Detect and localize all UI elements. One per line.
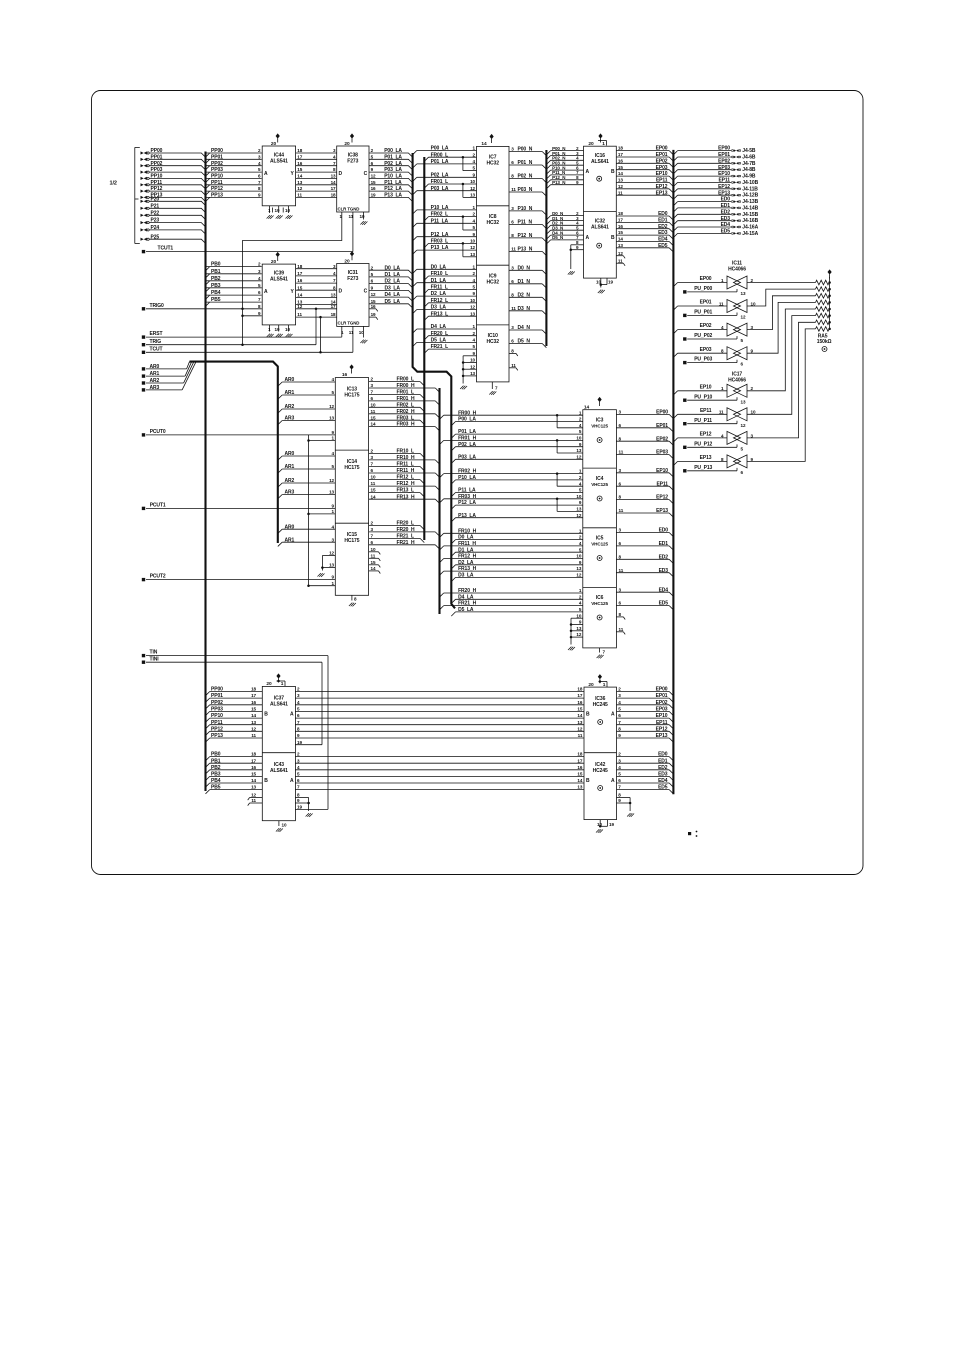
svg-text:ERST: ERST xyxy=(150,331,163,337)
svg-text:12: 12 xyxy=(329,478,334,483)
svg-text:ED0: ED0 xyxy=(659,528,669,534)
svg-text:ED2: ED2 xyxy=(658,224,668,230)
svg-text:EP10: EP10 xyxy=(656,171,668,177)
control signal PU_P03 xyxy=(683,361,686,364)
svg-text:EP11: EP11 xyxy=(656,178,668,184)
svg-text:ED3: ED3 xyxy=(658,772,668,778)
svg-text:D2_LA: D2_LA xyxy=(385,279,401,285)
svg-text:EP03: EP03 xyxy=(718,165,730,171)
IC6 ground pin 7 xyxy=(599,648,601,653)
svg-text:D: D xyxy=(339,289,343,295)
svg-text:PP02: PP02 xyxy=(151,161,163,167)
svg-text:14: 14 xyxy=(618,237,623,242)
svg-text:13: 13 xyxy=(618,178,623,183)
svg-text:PP12: PP12 xyxy=(211,186,223,192)
transceiver pair IC36 IC42 HC245 xyxy=(584,687,617,820)
svg-text:EP03: EP03 xyxy=(656,165,668,171)
svg-text:20: 20 xyxy=(271,141,277,147)
svg-text:HC245: HC245 xyxy=(593,702,608,708)
svg-text:EP03: EP03 xyxy=(656,707,668,713)
svg-text:VHC125: VHC125 xyxy=(591,542,608,547)
svg-text:12: 12 xyxy=(577,726,582,731)
svg-text:EP03: EP03 xyxy=(700,347,712,353)
svg-text:1: 1 xyxy=(603,682,606,688)
svg-text:16: 16 xyxy=(371,304,376,309)
J4 connector rows xyxy=(678,150,731,152)
svg-text:EP00: EP00 xyxy=(656,146,668,152)
svg-text:10: 10 xyxy=(576,554,581,559)
svg-text:B: B xyxy=(611,169,615,175)
svg-text:12: 12 xyxy=(470,245,475,250)
svg-text:13: 13 xyxy=(251,785,256,790)
svg-text:PP02: PP02 xyxy=(211,700,223,706)
svg-text:10: 10 xyxy=(576,494,581,499)
svg-text:11: 11 xyxy=(511,363,516,368)
wire switch output EP01 to RA5 xyxy=(747,289,816,306)
svg-text:J4-15B: J4-15B xyxy=(742,212,758,218)
svg-text:PP03: PP03 xyxy=(211,167,223,173)
svg-text:ED1: ED1 xyxy=(658,758,668,764)
wire switch output EP10 to RA5 xyxy=(747,309,816,391)
IC39 ground pins 1 19 10 xyxy=(269,325,271,332)
IC42 output stubs 8 9 grounded xyxy=(617,797,631,799)
svg-text:12: 12 xyxy=(329,551,334,556)
svg-text:12: 12 xyxy=(576,454,581,459)
bus B4 FR_L vertical bus x=424.3 xyxy=(423,157,425,540)
switch unit EP11 IC17 xyxy=(678,413,727,415)
signal PCUT1 xyxy=(142,507,145,510)
svg-text:PP12: PP12 xyxy=(211,726,223,732)
svg-text:B: B xyxy=(264,712,268,718)
svg-text:14: 14 xyxy=(251,713,256,718)
svg-text:VHC125: VHC125 xyxy=(591,601,608,606)
svg-text:ED4: ED4 xyxy=(658,237,668,243)
svg-text:18: 18 xyxy=(577,752,582,757)
svg-text:PU_P02: PU_P02 xyxy=(694,333,712,339)
svg-text:J4-7B: J4-7B xyxy=(742,161,756,167)
svg-text:ALS641: ALS641 xyxy=(591,159,609,165)
signal TRIG0 xyxy=(142,307,145,310)
svg-text:J4-14B: J4-14B xyxy=(742,205,758,211)
svg-text:13: 13 xyxy=(618,243,623,248)
svg-text:14: 14 xyxy=(251,778,256,783)
svg-text:PB0: PB0 xyxy=(211,262,221,268)
svg-text:D: D xyxy=(339,171,343,177)
svg-text:PP02: PP02 xyxy=(211,161,223,167)
svg-text:PP13: PP13 xyxy=(211,193,223,199)
svg-text:EP13: EP13 xyxy=(656,733,668,739)
input connector PP01 xyxy=(141,158,147,161)
bus B2 AR bus elbow xyxy=(146,368,187,370)
sheet border frame xyxy=(92,91,864,875)
svg-text:10: 10 xyxy=(285,327,290,332)
svg-text:12: 12 xyxy=(741,315,746,320)
svg-text:13: 13 xyxy=(331,174,336,179)
input connector P24 xyxy=(141,228,147,231)
svg-text:12: 12 xyxy=(251,793,256,798)
svg-text:EP11: EP11 xyxy=(718,178,730,184)
switch unit EP03 IC11 xyxy=(678,352,727,354)
svg-text:16: 16 xyxy=(297,161,302,166)
svg-text:15: 15 xyxy=(618,230,623,235)
IC16 output rows EP xyxy=(616,150,669,152)
svg-text:15: 15 xyxy=(251,707,256,712)
svg-text:PU_P00: PU_P00 xyxy=(694,286,712,292)
input connector PP02 xyxy=(141,164,147,167)
svg-text:P13_N: P13_N xyxy=(552,180,565,185)
svg-text:10: 10 xyxy=(576,613,581,618)
svg-text:EP10: EP10 xyxy=(656,713,668,719)
IC6 unused input stubs grounded xyxy=(571,617,583,619)
svg-text:PP13: PP13 xyxy=(211,733,223,739)
wire switch output EP12 to RA5 xyxy=(747,322,816,438)
svg-text:PB5: PB5 xyxy=(211,297,221,303)
svg-text:20: 20 xyxy=(344,258,350,264)
switch unit EP13 IC17 xyxy=(678,460,727,462)
svg-text:17: 17 xyxy=(331,304,336,309)
svg-text:14: 14 xyxy=(371,494,376,499)
input connector P22 xyxy=(141,214,147,217)
svg-text:12: 12 xyxy=(371,174,376,179)
svg-text:13: 13 xyxy=(577,785,582,790)
input connector P21 xyxy=(141,207,147,210)
svg-text:PB2: PB2 xyxy=(211,276,221,282)
control signal PU_P11 xyxy=(683,422,686,425)
svg-text:14: 14 xyxy=(297,293,302,298)
svg-text:11: 11 xyxy=(619,508,624,513)
svg-text:J4-9B: J4-9B xyxy=(742,174,756,180)
switch unit EP02 IC11 xyxy=(678,329,727,331)
svg-text:13: 13 xyxy=(329,416,334,421)
svg-text:TINI: TINI xyxy=(150,656,160,662)
svg-text:EP02: EP02 xyxy=(656,700,668,706)
svg-text:11: 11 xyxy=(297,193,302,198)
svg-text:19: 19 xyxy=(297,805,302,810)
svg-text:A: A xyxy=(290,778,294,784)
svg-text:17: 17 xyxy=(577,758,582,763)
svg-text:PP11: PP11 xyxy=(211,720,223,726)
svg-text:18: 18 xyxy=(331,312,336,317)
buffer IC39 ALS541 xyxy=(262,264,295,325)
svg-text:10: 10 xyxy=(470,298,475,303)
svg-text:D0_LA: D0_LA xyxy=(385,265,401,271)
svg-text:13: 13 xyxy=(576,566,581,571)
svg-text:PP11: PP11 xyxy=(211,180,223,186)
svg-text:12: 12 xyxy=(470,186,475,191)
input connector PP03 xyxy=(141,171,147,174)
svg-text:EP12: EP12 xyxy=(718,184,730,190)
svg-text:19: 19 xyxy=(297,740,302,745)
svg-text:EP12: EP12 xyxy=(656,726,668,732)
IC43 enable pin 19 from TIN xyxy=(295,808,328,810)
svg-text:B: B xyxy=(264,778,268,784)
input connector P20 xyxy=(141,200,147,203)
svg-text:J4-11B: J4-11B xyxy=(742,186,758,192)
svg-text:P03_LA: P03_LA xyxy=(384,167,402,173)
input connector PP13 xyxy=(141,196,147,199)
svg-text:13: 13 xyxy=(297,180,302,185)
svg-text:11: 11 xyxy=(297,312,302,317)
svg-text:12: 12 xyxy=(741,423,746,428)
wire switch output EP02 to RA5 xyxy=(747,296,816,330)
svg-text:P22: P22 xyxy=(151,210,160,216)
svg-text:10: 10 xyxy=(576,436,581,441)
svg-text:HC245: HC245 xyxy=(593,768,608,774)
IC39 pin12 row to IC31 pin17 xyxy=(296,308,337,310)
svg-text:20: 20 xyxy=(588,682,594,688)
svg-text:11: 11 xyxy=(618,258,623,263)
svg-text:J4-16B: J4-16B xyxy=(742,218,758,224)
svg-text:11: 11 xyxy=(511,306,516,311)
svg-text:EP01: EP01 xyxy=(718,152,730,158)
svg-text:EP00: EP00 xyxy=(718,146,730,152)
bottom data rows PP to IC37 and IC36 xyxy=(210,691,263,693)
svg-text:18: 18 xyxy=(331,193,336,198)
svg-text:14: 14 xyxy=(584,405,590,411)
svg-text:15: 15 xyxy=(371,560,376,565)
svg-text:ED5: ED5 xyxy=(658,243,668,249)
svg-text:14: 14 xyxy=(618,171,623,176)
svg-text:AR1: AR1 xyxy=(285,464,295,470)
svg-text:HC32: HC32 xyxy=(487,220,500,226)
svg-text:ED2: ED2 xyxy=(659,554,669,560)
bus B3 P_LA vertical bus x=412.6 with turn to x=451.3 xyxy=(413,153,455,608)
input bracket 1/2 xyxy=(134,147,136,243)
svg-text:13: 13 xyxy=(576,626,581,631)
svg-text:10: 10 xyxy=(470,179,475,184)
svg-text:15: 15 xyxy=(297,285,302,290)
svg-text:P10_LA: P10_LA xyxy=(384,174,402,180)
svg-text:ED0: ED0 xyxy=(658,752,668,758)
svg-text:EP01: EP01 xyxy=(656,423,668,429)
svg-text:AR3: AR3 xyxy=(285,490,295,496)
svg-text:150kΩ: 150kΩ xyxy=(817,339,832,345)
svg-text:A: A xyxy=(611,778,615,784)
svg-text:TRIG: TRIG xyxy=(150,339,162,345)
svg-text:14: 14 xyxy=(577,778,582,783)
svg-text:B: B xyxy=(586,778,590,784)
svg-text:A: A xyxy=(264,171,268,177)
svg-text:14: 14 xyxy=(331,180,336,185)
node labels PP00-PP13 after bus xyxy=(206,152,262,154)
svg-text:PCUT2: PCUT2 xyxy=(150,574,166,580)
svg-text:ED2: ED2 xyxy=(658,765,668,771)
wire IC39 pin12 loop to TRIG xyxy=(315,309,317,345)
svg-text:12: 12 xyxy=(297,304,302,309)
svg-text:13: 13 xyxy=(470,311,475,316)
svg-text:PU_P03: PU_P03 xyxy=(694,357,712,363)
svg-text:D5_N: D5_N xyxy=(552,235,563,240)
svg-text:ED5: ED5 xyxy=(721,229,731,235)
svg-text:13: 13 xyxy=(577,720,582,725)
svg-text:ED5: ED5 xyxy=(658,785,668,791)
svg-text:19: 19 xyxy=(371,312,376,317)
svg-text:15: 15 xyxy=(251,772,256,777)
svg-text:12: 12 xyxy=(297,186,302,191)
svg-text:PCUT1: PCUT1 xyxy=(150,503,166,509)
svg-text:10: 10 xyxy=(282,823,287,828)
input connector PP12 xyxy=(141,190,147,193)
VHC125 output rows xyxy=(616,413,669,415)
svg-text:AR3: AR3 xyxy=(285,416,295,422)
svg-text:EP13: EP13 xyxy=(656,190,668,196)
svg-text:ED4: ED4 xyxy=(721,222,731,228)
svg-text:EP11: EP11 xyxy=(700,408,712,414)
svg-text:12: 12 xyxy=(329,404,334,409)
svg-text:15: 15 xyxy=(577,707,582,712)
svg-text:13: 13 xyxy=(741,399,746,404)
svg-text:PB1: PB1 xyxy=(211,758,221,764)
svg-text:10: 10 xyxy=(470,358,475,363)
svg-text:ED5: ED5 xyxy=(659,601,669,607)
svg-text:CLR TGND: CLR TGND xyxy=(338,206,360,211)
svg-text:ED4: ED4 xyxy=(658,778,668,784)
bottom data rows PB to IC43 and IC42 xyxy=(210,756,263,758)
svg-text:B: B xyxy=(611,235,615,241)
svg-text:16: 16 xyxy=(251,765,256,770)
svg-text:AR1: AR1 xyxy=(285,390,295,396)
svg-text:14: 14 xyxy=(297,174,302,179)
svg-text:J4-10B: J4-10B xyxy=(742,180,758,186)
svg-text:HC4066: HC4066 xyxy=(728,267,746,273)
svg-text:20: 20 xyxy=(266,681,272,687)
svg-text:P11_LA: P11_LA xyxy=(384,180,402,186)
register IC38 F273 xyxy=(337,146,369,212)
svg-text:A: A xyxy=(264,289,268,295)
signal AR0-AR3 connectors xyxy=(142,367,145,370)
control signal PU_P12 xyxy=(683,446,686,449)
svg-text:20: 20 xyxy=(344,141,350,147)
svg-text:AR0: AR0 xyxy=(285,377,295,383)
svg-text:ED3: ED3 xyxy=(658,230,668,236)
svg-text:18: 18 xyxy=(251,687,256,692)
svg-text:12: 12 xyxy=(618,251,623,256)
bus B6 P_N D_N vertical bus x=546.4 xyxy=(545,150,547,346)
IC39 pin11 row to IC31 pin18 xyxy=(296,316,337,318)
svg-text:11: 11 xyxy=(511,187,516,192)
svg-text:EP00: EP00 xyxy=(700,276,712,282)
svg-text:B: B xyxy=(586,712,590,718)
svg-text:A: A xyxy=(586,235,590,241)
svg-text:P23: P23 xyxy=(151,218,160,224)
svg-text:ALS641: ALS641 xyxy=(591,225,609,231)
svg-text:16: 16 xyxy=(342,372,348,378)
svg-text:16: 16 xyxy=(618,158,623,163)
svg-text:PB5: PB5 xyxy=(211,785,221,791)
svg-text:J4-16A: J4-16A xyxy=(742,225,758,231)
svg-text:18: 18 xyxy=(618,211,623,216)
svg-text:EP03: EP03 xyxy=(656,450,668,456)
control signal PU_P02 xyxy=(683,337,686,340)
switch unit EP01 IC11 xyxy=(678,305,727,307)
svg-text:EP12: EP12 xyxy=(700,432,712,438)
control signal PU_P00 xyxy=(683,290,686,293)
IC15 ground pin 8 xyxy=(351,595,353,600)
IC37 enable pin 19 from TINI xyxy=(295,744,322,746)
signal TCUT1 xyxy=(142,250,145,253)
svg-text:ED1: ED1 xyxy=(659,541,669,547)
svg-text:PB4: PB4 xyxy=(211,778,221,784)
svg-text:1: 1 xyxy=(602,141,605,147)
svg-text:VHC125: VHC125 xyxy=(591,482,608,487)
svg-text:HC32: HC32 xyxy=(487,161,500,167)
input connector PP00 xyxy=(141,151,147,154)
switch unit EP10 IC17 xyxy=(678,390,727,392)
svg-text:AR0: AR0 xyxy=(285,524,295,530)
svg-text:19: 19 xyxy=(609,822,614,827)
svg-text:11: 11 xyxy=(578,733,583,738)
svg-text:J4-15A: J4-15A xyxy=(742,231,758,237)
svg-text:HC175: HC175 xyxy=(344,393,359,399)
svg-text:PP11: PP11 xyxy=(151,180,163,186)
svg-text:11: 11 xyxy=(719,301,724,306)
svg-text:10: 10 xyxy=(371,475,376,480)
svg-text:EP10: EP10 xyxy=(700,384,712,390)
svg-text:20: 20 xyxy=(588,141,594,147)
IC32 input rows D_N xyxy=(551,215,584,217)
svg-text:ALS641: ALS641 xyxy=(270,702,288,708)
svg-text:C: C xyxy=(364,171,368,177)
svg-text:11: 11 xyxy=(719,410,724,415)
svg-text:EP13: EP13 xyxy=(656,508,668,514)
wire switch output EP13 to RA5 xyxy=(747,329,816,462)
svg-text:11: 11 xyxy=(619,568,624,573)
svg-text:CLR TGND: CLR TGND xyxy=(338,321,360,326)
wire switch output EP03 to RA5 xyxy=(747,302,816,353)
input connector PP11 xyxy=(141,183,147,186)
svg-text:C: C xyxy=(364,289,368,295)
HC175 clock pin1 tie vertical xyxy=(308,435,310,586)
svg-text:D4_LA: D4_LA xyxy=(385,292,401,298)
control signal PU_P01 xyxy=(683,314,686,317)
wire switch output EP00 to RA5 xyxy=(747,282,816,284)
svg-text:PP00: PP00 xyxy=(211,148,223,154)
bus B1 main left vertical bus x=205 xyxy=(204,152,206,792)
svg-text:AR2: AR2 xyxy=(285,404,295,410)
svg-text:EP01: EP01 xyxy=(700,300,712,306)
svg-text:17: 17 xyxy=(331,186,336,191)
revision mark bottom right xyxy=(688,832,691,835)
svg-text:EP02: EP02 xyxy=(718,158,730,164)
svg-text:PB3: PB3 xyxy=(211,283,221,289)
svg-text:13: 13 xyxy=(331,293,336,298)
svg-text:ALS541: ALS541 xyxy=(270,277,288,283)
svg-text:EP02: EP02 xyxy=(656,436,668,442)
svg-text:TCUT: TCUT xyxy=(150,346,163,352)
svg-text:13: 13 xyxy=(329,563,334,568)
svg-text:A: A xyxy=(611,712,615,718)
svg-text:PP01: PP01 xyxy=(211,693,223,699)
svg-text:15: 15 xyxy=(371,180,376,185)
svg-text:PP01: PP01 xyxy=(211,154,223,160)
svg-text:12: 12 xyxy=(576,632,581,637)
svg-text:16: 16 xyxy=(297,278,302,283)
svg-text:PB3: PB3 xyxy=(211,772,221,778)
svg-text:15: 15 xyxy=(371,415,376,420)
svg-text:PP10: PP10 xyxy=(211,713,223,719)
control signal PU_P10 xyxy=(683,399,686,402)
svg-text:HC32: HC32 xyxy=(487,339,500,345)
svg-text:12: 12 xyxy=(618,184,623,189)
svg-text:AR0: AR0 xyxy=(285,451,295,457)
resistor array RA5 150k xyxy=(816,280,830,285)
svg-text:PU_P01: PU_P01 xyxy=(694,310,712,316)
svg-text:18: 18 xyxy=(577,687,582,692)
svg-text:TCUT1: TCUT1 xyxy=(158,246,174,252)
svg-text:J4-8B: J4-8B xyxy=(742,167,756,173)
svg-text:10: 10 xyxy=(371,547,376,552)
signal TIN xyxy=(142,654,145,657)
